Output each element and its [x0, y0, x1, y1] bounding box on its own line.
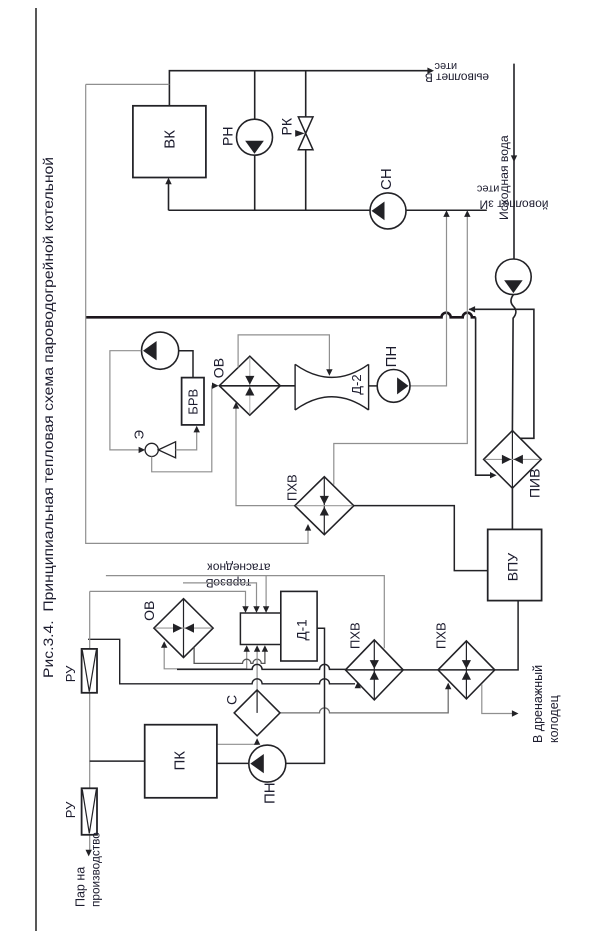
svg-text:д: д: [226, 561, 233, 575]
svg-text:о: о: [213, 561, 220, 575]
heat exchanger ОВ: [219, 356, 280, 415]
pump РН: [237, 119, 273, 155]
arrow head-bottom 2: [254, 645, 260, 652]
arrow into ВК bottom: [165, 178, 171, 185]
wire middle feed to head: [183, 583, 257, 611]
svg-text:т: т: [436, 71, 442, 85]
svg-text:РУ: РУ: [63, 801, 78, 818]
arrow into ОВ left vertex: [212, 383, 219, 389]
wire ОВ2 recirc to head bottom: [164, 644, 247, 669]
svg-text:Рис.3.4. Принципиальная тепло: Рис.3.4. Принципиальная тепловая схема п…: [40, 157, 56, 678]
arrow head-top 3: [263, 606, 269, 613]
svg-text:Исходная вода: Исходная вода: [497, 135, 511, 220]
wire raw pump to ПИВ with jog: [511, 295, 516, 431]
wire upper frame link: [86, 83, 170, 85]
arrow into ПХВ3 lower-left edge: [445, 683, 451, 690]
wire РН riser: [254, 71, 256, 211]
water treatment ВПУ: [488, 529, 542, 600]
steam boiler ПК: [145, 725, 217, 798]
svg-text:е: е: [482, 182, 488, 194]
boiler ВК: [133, 106, 206, 178]
arrow into tap2 line: [469, 306, 476, 312]
wire ОВ2 tap to head bottom: [194, 647, 265, 663]
svg-text:Д-2: Д-2: [349, 374, 364, 394]
wire ПК to ПН: [217, 762, 249, 764]
svg-text:й: й: [542, 197, 549, 211]
wire ejector to БРВ bottom: [176, 428, 197, 450]
arrow to heating network: [427, 68, 434, 74]
wire raw water inlet: [513, 64, 515, 260]
wire ВПУ to ПХВ3: [495, 601, 518, 670]
wire left frame to ПХВ1: [86, 84, 308, 543]
svg-text:ПН: ПН: [261, 782, 278, 804]
wire ПХВ2 to ПХВ3: [403, 669, 438, 671]
svg-text:Пар на: Пар на: [73, 867, 87, 907]
wire pump suction loop: [110, 351, 141, 450]
wire condensate return line: [106, 576, 384, 649]
svg-text:о: о: [460, 71, 467, 85]
arrow tap2 up: [464, 210, 470, 217]
wire deaerated water main: [177, 664, 345, 670]
arrow raw water down: [511, 155, 517, 162]
svg-text:т: т: [488, 182, 493, 194]
wire ПК to С: [217, 740, 257, 744]
svg-text:В: В: [425, 71, 433, 85]
svg-text:е: е: [232, 561, 239, 575]
arrow head-top 1: [242, 606, 248, 613]
wire РУ steam to ПХВ2: [88, 639, 355, 684]
svg-text:Э: Э: [131, 430, 146, 439]
wire boiler return header: [169, 209, 487, 211]
svg-text:е: е: [482, 71, 489, 85]
reducer РУ1: [82, 649, 97, 693]
svg-text:о: о: [522, 197, 529, 211]
ejector Э: [145, 443, 158, 456]
wire С riser to head bottom: [256, 648, 258, 690]
heat exchanger ПХВ2: [345, 640, 403, 700]
arrow pointing at РК: [295, 130, 305, 137]
svg-text:н: н: [219, 561, 226, 575]
valve РК: [298, 117, 313, 150]
arrow tap1 up: [443, 210, 449, 217]
wire ВК-top to network supply header: [169, 71, 430, 106]
wire ПН-top discharge to СН line: [410, 213, 447, 386]
wire ПН to Д-1: [286, 628, 325, 763]
svg-text:л: л: [515, 197, 522, 211]
arrow into ПИВ lower-left edge: [490, 472, 497, 478]
deaerator Д-2: [295, 364, 369, 410]
svg-text:е: е: [441, 71, 448, 85]
arrow head-bottom 1: [244, 645, 250, 652]
svg-text:л: л: [454, 71, 461, 85]
svg-text:колодец: колодец: [547, 695, 561, 743]
wire СН drain from right: [469, 309, 534, 438]
svg-text:ПХВ: ПХВ: [348, 622, 363, 649]
pump ПН feed: [377, 370, 410, 403]
arrow head-top 2: [253, 606, 259, 613]
arrow into С bottom: [254, 738, 260, 745]
wire ПХВ1 to ВПУ: [354, 506, 488, 571]
svg-text:с: с: [246, 561, 252, 575]
pump raw water: [496, 259, 532, 295]
arrow into Д-2 top: [326, 369, 332, 376]
wire С to ПХВ3: [280, 685, 448, 713]
tank БРВ: [182, 378, 204, 425]
heat exchanger ПИВ: [484, 431, 542, 489]
svg-text:к: к: [207, 561, 213, 575]
wire drain: [482, 684, 514, 713]
svg-text:РУ: РУ: [63, 665, 78, 682]
arrow steam to production: [86, 850, 92, 857]
svg-text:РН: РН: [220, 127, 236, 146]
svg-text:а: а: [252, 561, 259, 575]
arrow into ОВ2 lower-left edge: [161, 641, 167, 648]
wire return drop to ПИВ: [476, 317, 493, 475]
wire branch to head: [265, 576, 267, 611]
wire ejector outlet to ОВ: [152, 386, 215, 472]
svg-text:ОВ: ОВ: [141, 601, 157, 621]
wire pump to БРВ: [179, 351, 193, 378]
svg-text:з: з: [488, 197, 494, 211]
arrow into ОВ lower-left edge: [233, 402, 239, 409]
svg-text:ПН: ПН: [383, 346, 400, 368]
svg-text:производство: производство: [88, 832, 102, 907]
svg-text:ВК: ВК: [162, 130, 179, 149]
page rule border: [35, 8, 37, 931]
separator С: [234, 690, 280, 736]
svg-text:В дренажный: В дренажный: [531, 665, 545, 743]
heat exchanger ПХВ1: [295, 477, 354, 535]
svg-text:о: о: [535, 197, 542, 211]
wire thick network return: [86, 313, 476, 318]
svg-text:СН: СН: [378, 168, 395, 190]
arrow into БРВ bottom: [194, 426, 200, 433]
wire tap2 to ПХВ1 upper edge: [334, 213, 468, 484]
svg-text:т: т: [258, 561, 264, 575]
heat exchanger ОВ2: [154, 599, 213, 658]
wire ПИВ to ВПУ: [511, 488, 513, 529]
arrow into ПХВ1 lower-left edge: [305, 524, 311, 531]
svg-text:а: а: [263, 561, 270, 575]
wire steam main: [89, 591, 91, 852]
arrow into ejector: [139, 447, 146, 453]
svg-text:в: в: [468, 71, 474, 85]
wire return header to ВК: [168, 180, 170, 210]
svg-text:ПИВ: ПИВ: [527, 469, 543, 498]
svg-text:ВПУ: ВПУ: [504, 553, 520, 581]
svg-text:н: н: [239, 561, 246, 575]
svg-text:с: с: [434, 60, 440, 72]
pump recirculation: [142, 332, 179, 369]
svg-text:С: С: [223, 695, 239, 705]
deaerator tank Д-1: [281, 591, 317, 661]
deaerator head box: [240, 613, 280, 645]
svg-text:ПК: ПК: [172, 751, 189, 771]
wire ПХВ1 to ОВ lower edge: [236, 405, 295, 506]
arrow into ПХВ2 lower-left edge: [355, 682, 361, 689]
svg-text:ы: ы: [474, 71, 483, 85]
svg-text:с: с: [476, 182, 482, 194]
svg-text:п: п: [448, 71, 455, 85]
heat exchanger ПХВ3: [438, 641, 495, 699]
wire ОВ to Д-2: [219, 385, 295, 387]
svg-text:И: И: [479, 197, 488, 211]
svg-text:т: т: [446, 60, 451, 72]
svg-text:ПХВ: ПХВ: [285, 474, 300, 501]
arrow head-bottom 3: [262, 645, 268, 652]
svg-text:е: е: [440, 60, 446, 72]
svg-text:Д-1: Д-1: [295, 619, 310, 640]
svg-text:РК: РК: [278, 117, 294, 135]
reducer РУ2: [82, 788, 97, 835]
wire Д-2 to ПН: [369, 385, 378, 387]
wire РУ line to head: [90, 591, 246, 610]
pump СН: [370, 193, 406, 229]
svg-text:ОВ: ОВ: [210, 358, 226, 378]
svg-text:ПХВ: ПХВ: [434, 622, 449, 649]
svg-text:в: в: [529, 197, 535, 211]
pump ПН feedwater: [249, 745, 286, 782]
wire ОВ edge to Д-2 top: [238, 335, 329, 373]
wire РК riser: [305, 71, 307, 211]
svg-text:БРВ: БРВ: [185, 389, 200, 415]
svg-text:и: и: [451, 60, 457, 72]
wire boiler steam: [90, 760, 145, 762]
arrow to drain pit: [512, 710, 519, 716]
